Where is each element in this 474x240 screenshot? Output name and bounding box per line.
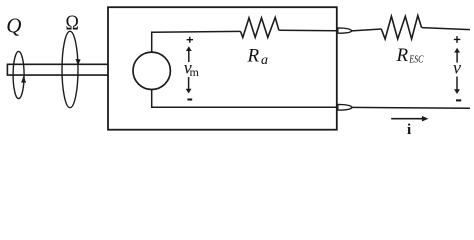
wire: port to Resc xyxy=(352,29,382,31)
svg-text:a: a xyxy=(261,53,268,68)
connector port top xyxy=(338,28,352,33)
svg-text:R: R xyxy=(247,45,260,66)
resistor Ra xyxy=(241,17,279,37)
svg-text:Q: Q xyxy=(6,14,21,38)
svg-text:i: i xyxy=(407,122,411,138)
ellipse Omega (speed rotation) xyxy=(62,31,78,107)
vm down arrow xyxy=(186,77,192,94)
motor circle xyxy=(133,52,170,89)
resistor Resc xyxy=(381,16,421,40)
connector port bottom xyxy=(338,104,352,110)
svg-text:Ω: Ω xyxy=(66,11,79,35)
right minus xyxy=(456,99,461,101)
right down arrow xyxy=(454,77,460,95)
svg-text:ESC: ESC xyxy=(409,54,425,65)
right up arrow xyxy=(454,48,460,63)
vm minus xyxy=(187,99,192,101)
wire: Ra to box edge xyxy=(279,29,337,32)
svg-text:R: R xyxy=(396,45,409,66)
vm annotation: plus xyxy=(187,37,193,43)
wire: circle bottom to box edge xyxy=(152,90,337,108)
ellipse Q (torque rotation) xyxy=(13,51,24,98)
wire: circle top to Ra xyxy=(152,31,241,52)
arrowhead up on ellipse Q xyxy=(21,76,26,83)
enclosure box xyxy=(108,7,337,130)
right v annotation: plus xyxy=(454,36,461,43)
svg-text:v: v xyxy=(453,58,461,78)
vm up arrow xyxy=(186,46,192,62)
svg-text:m: m xyxy=(190,65,200,79)
wire: Resc to right end xyxy=(422,28,470,30)
shaft xyxy=(7,64,108,75)
current i arrow xyxy=(391,116,428,122)
wire: bottom to right end xyxy=(352,106,470,109)
arrowhead down on ellipse Omega xyxy=(75,59,80,65)
